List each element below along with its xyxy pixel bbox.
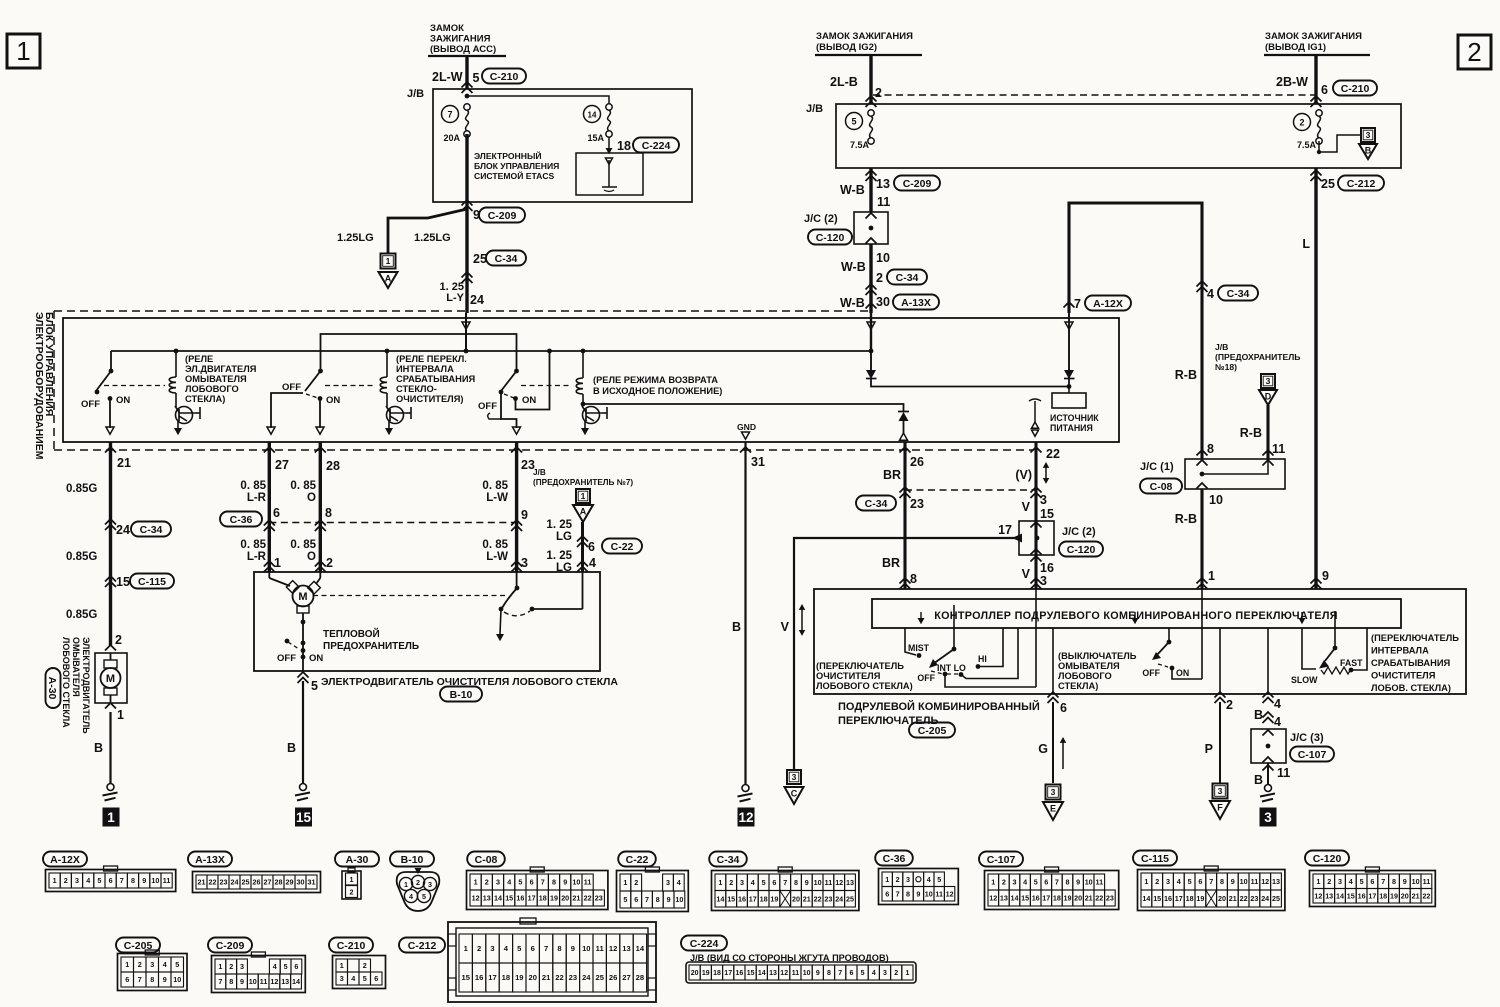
svg-text:3: 3 xyxy=(428,880,432,889)
relay washer motor coil xyxy=(169,351,176,407)
svg-text:B: B xyxy=(1254,773,1263,787)
svg-text:9: 9 xyxy=(571,944,575,953)
dashed link IG2 to IG1 xyxy=(873,94,1317,96)
marks wire27 xyxy=(240,447,289,572)
svg-text:3: 3 xyxy=(1013,878,1017,887)
svg-text:20: 20 xyxy=(1218,894,1226,903)
svg-text:5: 5 xyxy=(762,878,766,887)
svg-text:22: 22 xyxy=(555,973,563,982)
svg-text:13: 13 xyxy=(1000,894,1008,903)
svg-text:2: 2 xyxy=(1155,877,1159,886)
svg-text:12: 12 xyxy=(738,810,753,825)
svg-text:FAST: FAST xyxy=(1340,658,1363,668)
wiper switch arm xyxy=(929,605,956,668)
svg-text:3: 3 xyxy=(240,962,244,971)
svg-text:14: 14 xyxy=(716,894,724,903)
svg-text:11: 11 xyxy=(1423,877,1431,886)
svg-text:2: 2 xyxy=(876,271,883,285)
svg-text:8: 8 xyxy=(552,878,556,887)
svg-text:OFF: OFF xyxy=(917,673,935,683)
svg-text:9: 9 xyxy=(1322,569,1329,583)
svg-text:(ПЕРЕКЛЮЧАТЕЛЬ: (ПЕРЕКЛЮЧАТЕЛЬ xyxy=(816,661,904,671)
svg-text:1: 1 xyxy=(340,961,344,970)
relay return mode transistor xyxy=(581,406,607,435)
svg-text:15: 15 xyxy=(1153,894,1161,903)
svg-text:2: 2 xyxy=(1327,877,1331,886)
svg-text:21: 21 xyxy=(572,894,580,903)
svg-text:17: 17 xyxy=(998,523,1012,537)
svg-text:2: 2 xyxy=(634,878,638,887)
node ACC branch xyxy=(465,94,609,104)
connector A-30 oval xyxy=(46,668,61,708)
svg-text:12: 12 xyxy=(989,894,997,903)
labels interval switch xyxy=(1291,658,1363,685)
svg-text:C-224: C-224 xyxy=(690,938,719,950)
svg-text:2L-W: 2L-W xyxy=(432,70,463,84)
svg-text:B-10: B-10 xyxy=(450,689,473,701)
svg-text:7: 7 xyxy=(138,975,142,984)
connector mark C-34 pin4 xyxy=(1197,281,1259,301)
svg-text:11: 11 xyxy=(792,970,800,977)
relay wiper interval coil xyxy=(325,351,387,407)
svg-text:E: E xyxy=(1050,804,1056,814)
svg-text:2: 2 xyxy=(896,875,900,884)
washer motor A-30 xyxy=(95,653,127,703)
svg-text:8: 8 xyxy=(656,895,660,904)
marks wire28 xyxy=(290,447,340,572)
connector C-36 oval xyxy=(220,512,262,527)
svg-text:13: 13 xyxy=(769,970,777,977)
svg-text:1.25LG: 1.25LG xyxy=(337,232,374,244)
label 1.25 L-Y xyxy=(440,281,484,307)
label 2L-B xyxy=(830,75,882,100)
svg-text:СИСТЕМОЙ ETACS: СИСТЕМОЙ ETACS xyxy=(474,170,555,181)
svg-text:8: 8 xyxy=(1066,878,1070,887)
svg-text:6: 6 xyxy=(530,878,534,887)
svg-text:A-12X: A-12X xyxy=(50,854,80,866)
svg-text:ЛОБОВ. СТЕКЛА): ЛОБОВ. СТЕКЛА) xyxy=(1371,683,1451,693)
svg-text:(ВЫВОД АСС): (ВЫВОД АСС) xyxy=(430,44,496,55)
svg-text:8: 8 xyxy=(131,876,135,885)
svg-text:24: 24 xyxy=(116,523,130,537)
svg-text:8: 8 xyxy=(557,944,561,953)
svg-text:C-115: C-115 xyxy=(1141,853,1169,865)
interval switch feed arrow xyxy=(1299,612,1306,624)
svg-text:17: 17 xyxy=(488,973,496,982)
svg-text:21: 21 xyxy=(117,456,131,470)
svg-text:C-36: C-36 xyxy=(883,853,906,865)
svg-text:5: 5 xyxy=(473,71,480,85)
marks wire26 xyxy=(856,447,924,589)
svg-text:23: 23 xyxy=(220,878,228,887)
svg-text:22: 22 xyxy=(814,894,822,903)
label interval switch unit xyxy=(1371,633,1459,693)
svg-text:W-B: W-B xyxy=(840,296,865,310)
svg-text:4: 4 xyxy=(927,875,931,884)
svg-text:23: 23 xyxy=(1250,894,1258,903)
switch washer relay contacts xyxy=(81,351,165,434)
svg-text:14: 14 xyxy=(1142,894,1150,903)
svg-text:GND: GND xyxy=(737,422,756,432)
svg-text:4: 4 xyxy=(507,878,511,887)
fuse 2 xyxy=(1294,110,1323,150)
svg-text:7: 7 xyxy=(838,970,842,977)
label ignition switch ACC xyxy=(428,23,506,56)
svg-text:L-R: L-R xyxy=(247,551,267,563)
svg-text:5: 5 xyxy=(311,679,318,693)
svg-text:2: 2 xyxy=(1467,37,1481,67)
interval switch hook SLOW xyxy=(1302,628,1316,669)
thermal fuse switch xyxy=(277,639,323,664)
arrow into JC2 xyxy=(1012,534,1022,543)
svg-text:4: 4 xyxy=(1349,877,1353,886)
svg-text:0.85G: 0.85G xyxy=(66,551,97,563)
svg-text:20: 20 xyxy=(561,894,569,903)
diode wire30 xyxy=(866,370,1071,389)
svg-text:11: 11 xyxy=(935,889,943,898)
svg-text:16: 16 xyxy=(1358,891,1366,900)
wire 31 B xyxy=(732,442,765,785)
svg-text:28: 28 xyxy=(326,459,340,473)
svg-text:2: 2 xyxy=(416,878,420,887)
svg-text:5: 5 xyxy=(1188,877,1192,886)
svg-text:C-209: C-209 xyxy=(216,940,245,952)
connector table C-107 xyxy=(979,852,1119,910)
svg-text:2: 2 xyxy=(477,944,481,953)
svg-text:(РЕЛЕ: (РЕЛЕ xyxy=(185,354,213,364)
svg-text:10: 10 xyxy=(582,944,590,953)
washer switch arm xyxy=(1152,628,1171,660)
svg-text:3: 3 xyxy=(340,974,344,983)
svg-text:ПРЕДОХРАНИТЕЛЬ: ПРЕДОХРАНИТЕЛЬ xyxy=(323,641,419,652)
svg-text:31: 31 xyxy=(308,878,316,887)
svg-text:11: 11 xyxy=(1095,878,1103,887)
svg-text:0. 85: 0. 85 xyxy=(482,480,508,492)
svg-text:8: 8 xyxy=(229,977,233,986)
svg-text:6: 6 xyxy=(273,506,280,520)
svg-text:19: 19 xyxy=(515,973,523,982)
svg-text:B: B xyxy=(1254,708,1263,722)
svg-text:13: 13 xyxy=(846,878,854,887)
svg-text:ЛОБОВОГО: ЛОБОВОГО xyxy=(185,384,239,394)
ground wire31 xyxy=(738,785,753,802)
svg-text:C-107: C-107 xyxy=(1298,749,1327,761)
svg-text:22: 22 xyxy=(1240,894,1248,903)
diode wire26 xyxy=(898,412,909,441)
junction J/C(1) xyxy=(1140,459,1285,494)
svg-text:23: 23 xyxy=(1106,894,1114,903)
connector table C-22 xyxy=(617,852,689,912)
svg-text:5: 5 xyxy=(284,962,288,971)
svg-text:ЗАМОК: ЗАМОК xyxy=(430,23,464,34)
svg-text:(ВЫВОД IG2): (ВЫВОД IG2) xyxy=(816,42,877,53)
svg-text:15: 15 xyxy=(727,894,735,903)
svg-text:18: 18 xyxy=(617,139,631,153)
svg-text:O: O xyxy=(307,551,316,563)
svg-text:5: 5 xyxy=(363,974,367,983)
svg-text:OFF: OFF xyxy=(277,653,296,664)
svg-text:1: 1 xyxy=(53,876,57,885)
svg-text:9: 9 xyxy=(240,977,244,986)
svg-text:J/B: J/B xyxy=(806,103,823,115)
thermal fuse line xyxy=(301,613,306,671)
svg-text:2: 2 xyxy=(64,876,68,885)
svg-text:6: 6 xyxy=(1321,83,1328,97)
svg-text:9: 9 xyxy=(163,975,167,984)
wire 5 B xyxy=(287,672,318,784)
svg-text:C-08: C-08 xyxy=(475,854,498,866)
svg-text:17: 17 xyxy=(749,894,757,903)
svg-text:3: 3 xyxy=(1264,810,1272,825)
svg-text:1: 1 xyxy=(386,256,391,266)
interval FAST link xyxy=(1349,628,1367,672)
electric control unit inner box xyxy=(63,318,1119,442)
svg-text:3: 3 xyxy=(521,556,528,570)
svg-text:22: 22 xyxy=(1095,894,1103,903)
svg-text:БЛОК УПРАВЛЕНИЯ: БЛОК УПРАВЛЕНИЯ xyxy=(474,161,559,171)
svg-text:16: 16 xyxy=(1032,894,1040,903)
connector mark A-12X pin7 xyxy=(1064,296,1132,312)
wire 22 V xyxy=(1034,442,1037,589)
svg-text:23: 23 xyxy=(910,497,924,511)
wire B washer motor xyxy=(94,703,124,784)
svg-text:3: 3 xyxy=(496,878,500,887)
svg-text:24: 24 xyxy=(231,878,239,887)
svg-text:3: 3 xyxy=(1051,787,1056,797)
svg-text:4: 4 xyxy=(1274,715,1281,729)
svg-text:(ВЫКЛЮЧАТЕЛЬ: (ВЫКЛЮЧАТЕЛЬ xyxy=(1058,651,1137,661)
svg-text:13: 13 xyxy=(281,977,289,986)
svg-text:5: 5 xyxy=(97,876,101,885)
svg-text:2: 2 xyxy=(1226,698,1233,712)
fuse 7 xyxy=(442,104,471,143)
svg-text:21: 21 xyxy=(542,973,551,982)
svg-text:J/C (2): J/C (2) xyxy=(1062,526,1096,538)
svg-text:3: 3 xyxy=(1166,877,1170,886)
svg-text:26: 26 xyxy=(910,455,924,469)
svg-text:2: 2 xyxy=(138,960,142,969)
svg-text:8: 8 xyxy=(1220,877,1224,886)
svg-text:9: 9 xyxy=(667,895,671,904)
connector mark C-209 pin9 xyxy=(462,200,526,223)
svg-text:(ПРЕДОХРАНИТЕЛЬ №7): (ПРЕДОХРАНИТЕЛЬ №7) xyxy=(533,478,633,487)
svg-text:V: V xyxy=(781,620,790,634)
svg-text:22: 22 xyxy=(209,878,217,887)
svg-text:12: 12 xyxy=(472,894,480,903)
junction J/C(2) lower xyxy=(998,521,1103,557)
svg-text:5: 5 xyxy=(861,970,865,977)
svg-text:22: 22 xyxy=(1046,447,1060,461)
svg-text:7: 7 xyxy=(541,878,545,887)
svg-text:B-10: B-10 xyxy=(401,854,424,866)
svg-text:3: 3 xyxy=(792,772,797,782)
ref P to F xyxy=(1210,784,1230,820)
svg-text:W-B: W-B xyxy=(840,183,865,197)
svg-text:10: 10 xyxy=(876,251,890,265)
wire W-B mid xyxy=(869,244,872,313)
svg-text:P: P xyxy=(1205,742,1213,756)
svg-text:7: 7 xyxy=(120,876,124,885)
label 1.25LG left xyxy=(337,232,374,244)
svg-text:1: 1 xyxy=(117,708,124,722)
svg-text:J/C (2): J/C (2) xyxy=(804,213,838,225)
svg-text:9: 9 xyxy=(1076,878,1080,887)
svg-text:9: 9 xyxy=(805,878,809,887)
svg-text:4: 4 xyxy=(273,962,277,971)
svg-text:11: 11 xyxy=(1272,442,1285,456)
svg-text:4: 4 xyxy=(1274,697,1281,711)
svg-text:17: 17 xyxy=(1042,894,1050,903)
svg-text:6: 6 xyxy=(1370,877,1374,886)
wire 2L-B xyxy=(869,55,872,104)
connector mark IG2 entry xyxy=(866,96,877,107)
fuse 5 xyxy=(846,110,875,150)
svg-text:8: 8 xyxy=(150,975,154,984)
svg-text:10: 10 xyxy=(1085,878,1093,887)
svg-text:C-209: C-209 xyxy=(903,178,932,190)
svg-text:21: 21 xyxy=(1412,891,1420,900)
marks wire LG xyxy=(546,519,642,574)
svg-text:C-34: C-34 xyxy=(140,524,163,536)
svg-text:C-08: C-08 xyxy=(1150,481,1173,493)
svg-text:C-120: C-120 xyxy=(816,232,845,244)
wire 2B-W xyxy=(1314,55,1317,104)
connector table C-115 xyxy=(1133,851,1285,911)
svg-text:6: 6 xyxy=(374,974,378,983)
svg-text:5: 5 xyxy=(1360,877,1364,886)
svg-text:O: O xyxy=(307,492,316,504)
svg-text:26: 26 xyxy=(253,878,261,887)
label thermal fuse xyxy=(323,627,419,652)
washer ON link xyxy=(1158,664,1202,679)
svg-text:2: 2 xyxy=(115,633,122,647)
label wiper switch unit xyxy=(816,661,913,691)
svg-text:7: 7 xyxy=(1209,877,1213,886)
svg-text:6: 6 xyxy=(1044,878,1048,887)
svg-text:11: 11 xyxy=(163,876,171,885)
svg-text:17: 17 xyxy=(724,970,732,977)
svg-text:(ПЕРЕКЛЮЧАТЕЛЬ: (ПЕРЕКЛЮЧАТЕЛЬ xyxy=(1371,633,1459,643)
diode wire7 xyxy=(1064,370,1075,387)
svg-text:7: 7 xyxy=(218,977,222,986)
branch fuse2 to ref B xyxy=(1317,128,1377,159)
svg-text:16: 16 xyxy=(516,894,524,903)
svg-text:C-34: C-34 xyxy=(495,253,518,265)
svg-text:B: B xyxy=(287,741,296,755)
svg-text:1: 1 xyxy=(885,875,889,884)
label ETACS xyxy=(474,150,559,181)
svg-text:11: 11 xyxy=(825,878,833,887)
svg-text:7: 7 xyxy=(447,110,452,120)
svg-text:ОЧИСТИТЕЛЯ): ОЧИСТИТЕЛЯ) xyxy=(396,394,463,404)
svg-text:19: 19 xyxy=(1390,891,1398,900)
svg-text:0.85G: 0.85G xyxy=(66,609,97,621)
svg-text:СТЕКЛО-: СТЕКЛО- xyxy=(396,384,437,394)
svg-text:3: 3 xyxy=(1366,130,1371,140)
svg-text:C-210: C-210 xyxy=(337,940,366,952)
label ignition switch IG2 xyxy=(815,31,922,55)
svg-text:14: 14 xyxy=(636,944,645,953)
svg-text:1: 1 xyxy=(718,878,722,887)
svg-text:9: 9 xyxy=(916,889,920,898)
svg-text:15: 15 xyxy=(296,810,312,825)
label wiper motor xyxy=(321,676,618,702)
label 8 JC1 xyxy=(1197,442,1215,456)
svg-text:6: 6 xyxy=(634,895,638,904)
ground J/C3 xyxy=(1260,785,1275,802)
svg-text:1: 1 xyxy=(125,960,129,969)
label L xyxy=(1302,237,1310,251)
wire 6 G xyxy=(1038,628,1067,783)
svg-text:10: 10 xyxy=(249,977,257,986)
wire 30 inside xyxy=(867,313,875,370)
ref box 1 to A xyxy=(379,254,398,289)
svg-text:2: 2 xyxy=(894,970,898,977)
svg-text:C-212: C-212 xyxy=(1347,178,1376,190)
svg-text:C-22: C-22 xyxy=(626,854,649,866)
svg-text:25: 25 xyxy=(473,252,487,266)
svg-text:20: 20 xyxy=(528,973,536,982)
svg-text:2L-B: 2L-B xyxy=(830,75,858,89)
svg-text:18: 18 xyxy=(539,894,547,903)
connector mark C-209 pin13 xyxy=(840,170,940,209)
svg-text:HI: HI xyxy=(978,654,987,664)
svg-text:A: A xyxy=(385,274,392,284)
svg-text:18: 18 xyxy=(1186,894,1194,903)
svg-text:C-210: C-210 xyxy=(1341,83,1370,95)
svg-text:ПОДРУЛЕВОЙ КОМБИНИРОВАННЫЙ: ПОДРУЛЕВОЙ КОМБИНИРОВАННЫЙ xyxy=(838,700,1040,713)
svg-text:№18): №18) xyxy=(1215,362,1237,372)
vertical label block control xyxy=(33,312,55,460)
svg-text:2: 2 xyxy=(363,961,367,970)
svg-text:0. 85: 0. 85 xyxy=(240,539,266,551)
svg-text:15: 15 xyxy=(461,973,470,982)
svg-text:2: 2 xyxy=(875,86,882,100)
label 1.25LG right xyxy=(414,232,451,244)
svg-text:25: 25 xyxy=(1321,177,1335,191)
svg-text:M: M xyxy=(106,673,115,685)
label washer motor vertical xyxy=(61,637,91,734)
svg-text:24: 24 xyxy=(1261,894,1269,903)
svg-text:3: 3 xyxy=(1338,877,1342,886)
svg-text:4: 4 xyxy=(351,974,355,983)
svg-text:18: 18 xyxy=(713,970,721,977)
svg-text:12: 12 xyxy=(780,970,788,977)
svg-text:5: 5 xyxy=(518,878,522,887)
svg-text:6: 6 xyxy=(109,876,113,885)
svg-text:ON: ON xyxy=(116,395,130,406)
svg-text:14: 14 xyxy=(292,977,300,986)
dashed connector line C-36 xyxy=(269,522,516,524)
connector table C-205 xyxy=(116,938,187,991)
svg-text:V: V xyxy=(1022,500,1031,514)
svg-text:1: 1 xyxy=(474,878,478,887)
svg-text:13: 13 xyxy=(876,177,890,191)
svg-text:30: 30 xyxy=(297,878,305,887)
svg-text:BR: BR xyxy=(883,468,901,482)
svg-text:C-205: C-205 xyxy=(918,725,947,737)
svg-text:1: 1 xyxy=(991,878,995,887)
svg-text:20: 20 xyxy=(691,970,699,977)
connector table C-209 xyxy=(208,938,305,993)
bus line upper xyxy=(321,334,517,371)
dashed link 26-22 xyxy=(905,489,1036,491)
connector table A-13X xyxy=(188,852,321,893)
wire 21 G xyxy=(109,442,112,646)
svg-text:(РЕЛЕ ПЕРЕКЛ.: (РЕЛЕ ПЕРЕКЛ. xyxy=(396,354,467,364)
svg-text:14: 14 xyxy=(1336,891,1344,900)
svg-text:(РЕЛЕ РЕЖИМА ВОЗВРАТА: (РЕЛЕ РЕЖИМА ВОЗВРАТА xyxy=(593,375,718,385)
